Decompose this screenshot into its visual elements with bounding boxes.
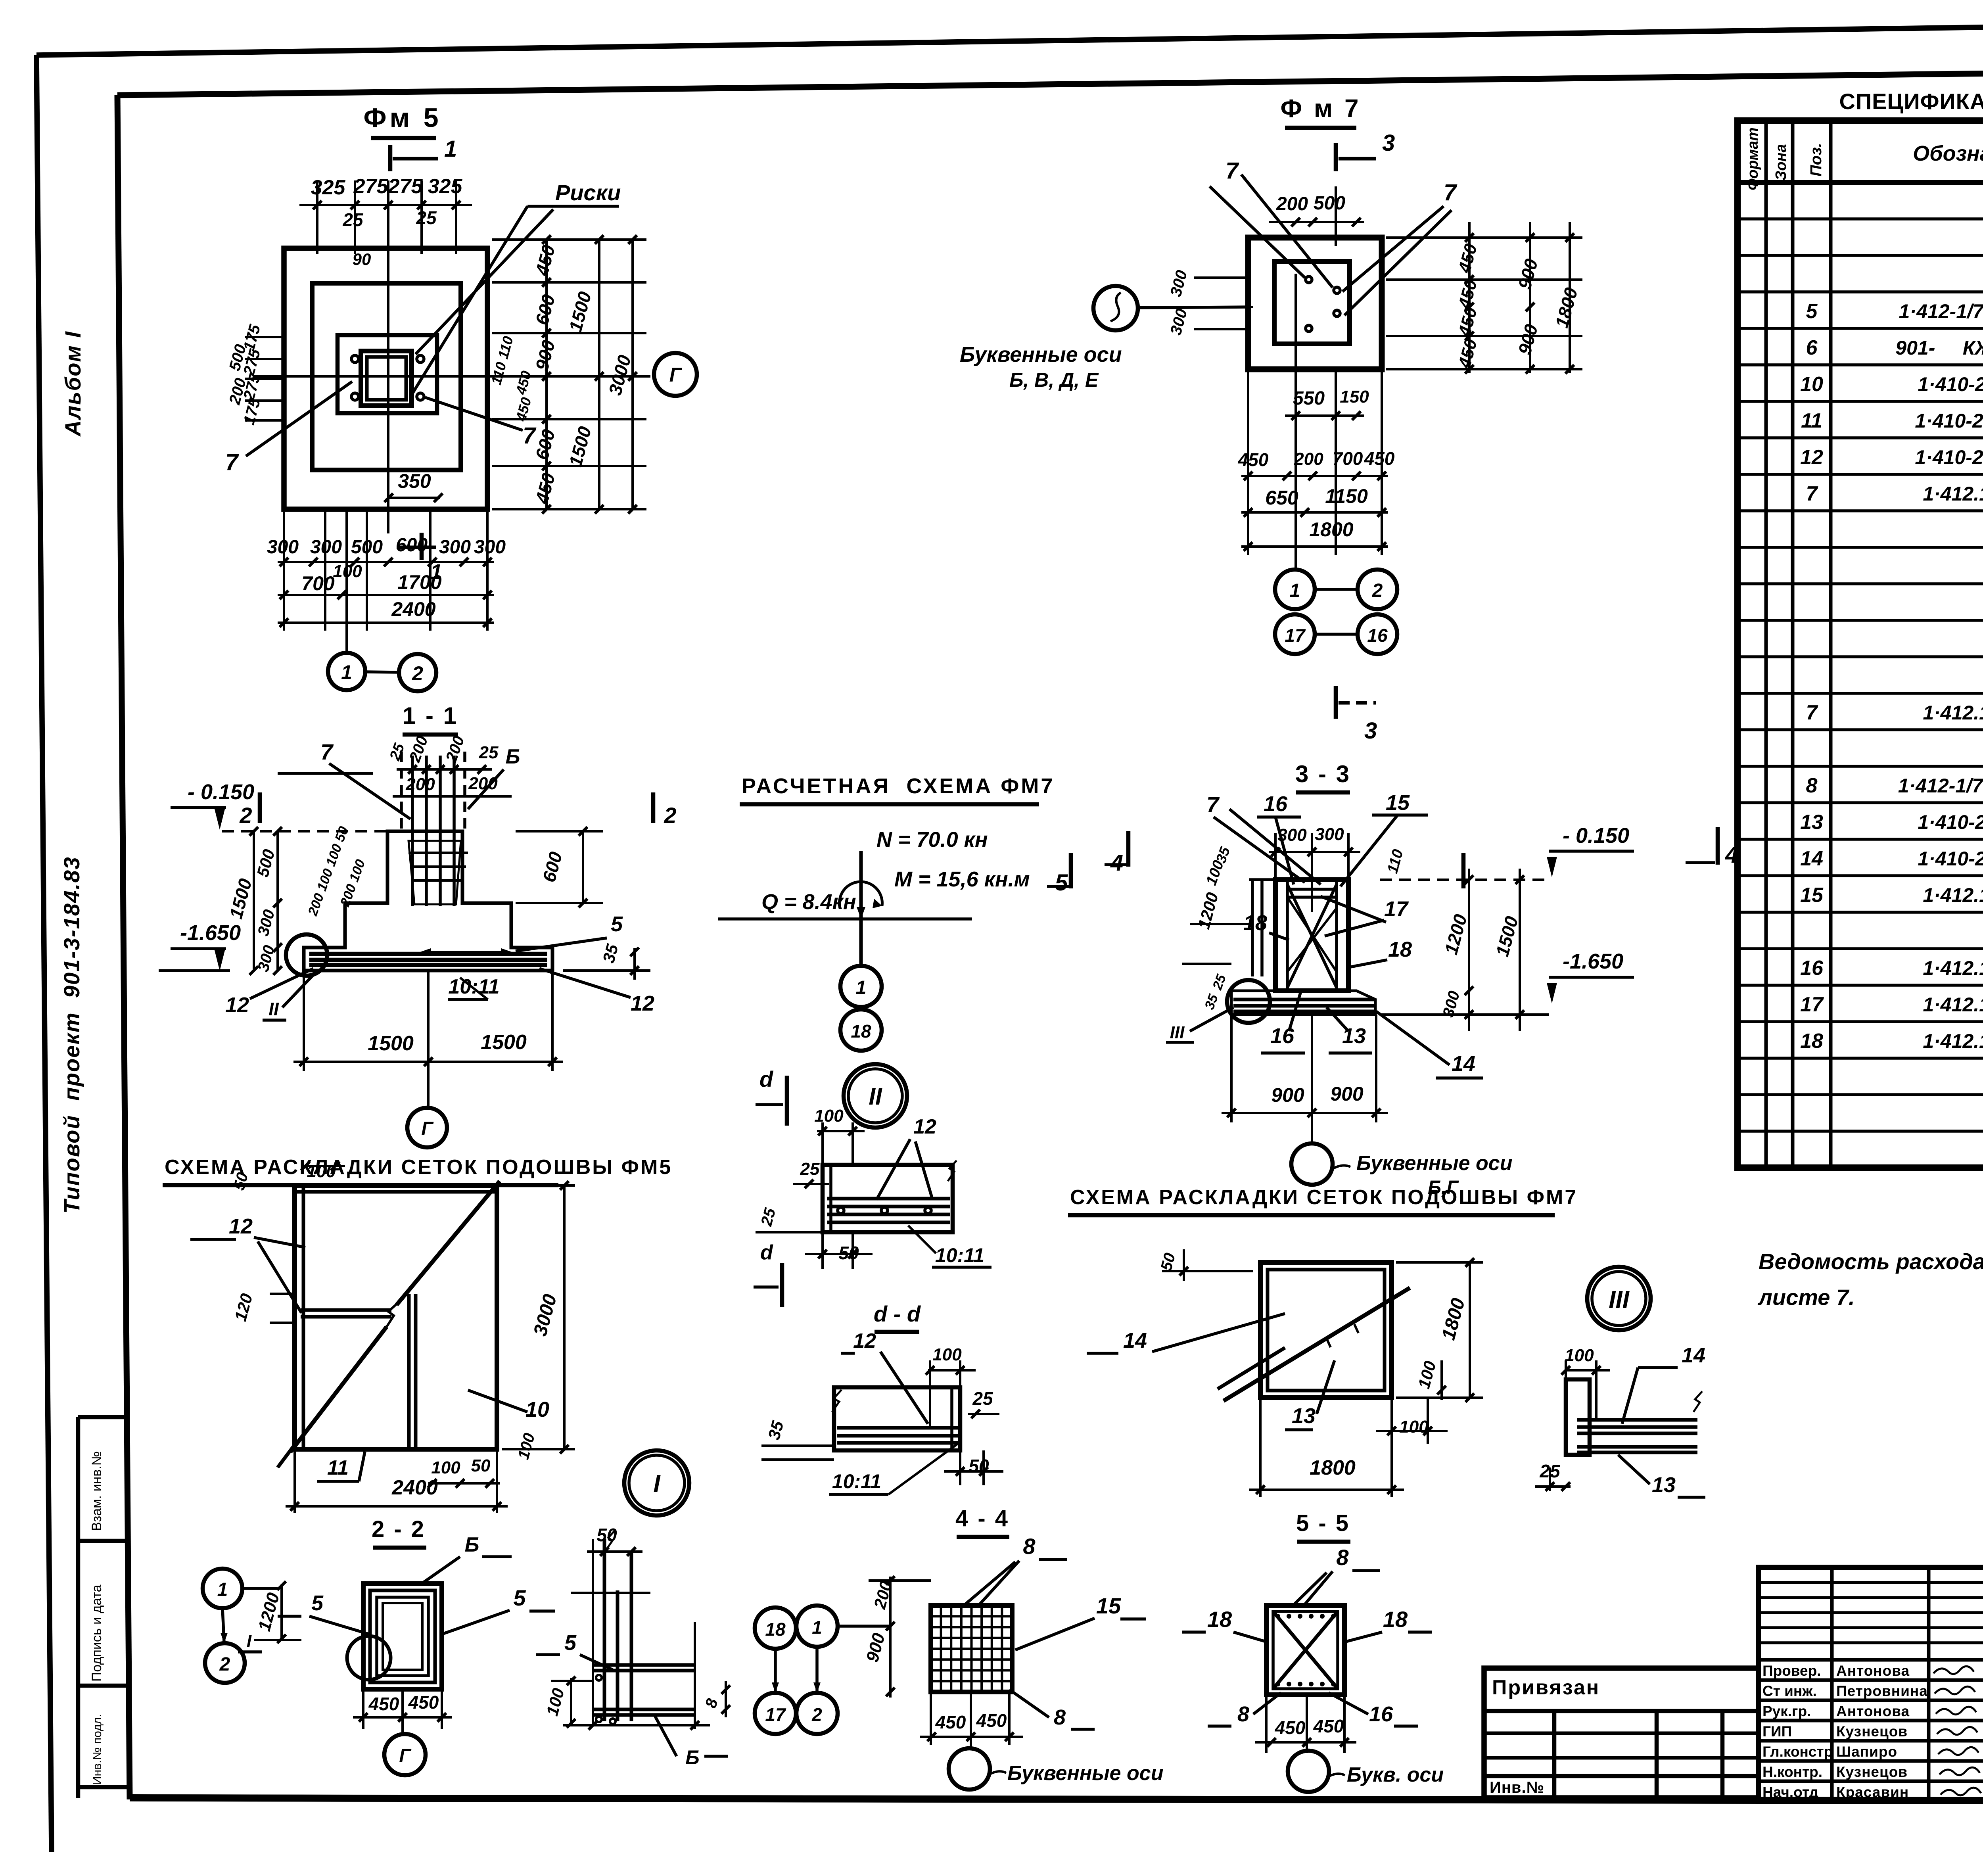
svg-text:2: 2	[1372, 580, 1383, 601]
svg-text:450: 450	[1238, 449, 1269, 470]
svg-text:Буквенные оси: Буквенные оси	[960, 343, 1122, 366]
svg-text:14: 14	[1800, 847, 1823, 870]
svg-text:Кузнецов: Кузнецов	[1836, 1723, 1908, 1740]
svg-text:M = 15,6 кн.м: M = 15,6 кн.м	[894, 867, 1030, 891]
svg-text:Подпись и дата: Подпись и дата	[89, 1584, 104, 1682]
svg-text:5 - 5: 5 - 5	[1296, 1510, 1350, 1536]
svg-text:СПЕЦИФИКАЦИЯ МОНОЛИТНЫХ ФУНДАМ: СПЕЦИФИКАЦИЯ МОНОЛИТНЫХ ФУНДАМЕНТОВ	[1839, 89, 1983, 114]
svg-text:50: 50	[471, 1456, 491, 1475]
svg-text:d: d	[759, 1067, 774, 1091]
svg-text:16: 16	[1367, 625, 1388, 646]
svg-text:Б: Б	[685, 1746, 699, 1769]
svg-text:3: 3	[1382, 130, 1395, 156]
svg-text:Антонова: Антонова	[1836, 1703, 1910, 1719]
svg-text:14: 14	[1682, 1343, 1705, 1367]
svg-text:Букв. оси: Букв. оси	[1347, 1763, 1444, 1786]
svg-text:2: 2	[219, 1654, 230, 1675]
svg-text:10:11: 10:11	[935, 1244, 984, 1266]
svg-text:1·412.1-4.080: 1·412.1-4.080	[1923, 994, 1983, 1016]
svg-text:2: 2	[412, 662, 423, 685]
svg-text:300: 300	[310, 537, 342, 558]
svg-text:2: 2	[664, 803, 676, 828]
svg-text:III: III	[1609, 1286, 1630, 1314]
svg-text:III: III	[1170, 1023, 1185, 1042]
svg-text:Гл.констр: Гл.констр	[1762, 1744, 1833, 1760]
svg-text:350: 350	[398, 470, 431, 492]
svg-text:700: 700	[1333, 448, 1363, 469]
svg-text:325: 325	[311, 176, 346, 199]
svg-text:12: 12	[631, 992, 654, 1015]
svg-text:d: d	[760, 1241, 773, 1264]
svg-text:Рук.гр.: Рук.гр.	[1762, 1703, 1811, 1719]
svg-text:500: 500	[351, 537, 383, 558]
svg-text:1: 1	[444, 136, 457, 162]
svg-text:1·410-2. Вып.1: 1·410-2. Вып.1	[1915, 410, 1983, 432]
svg-text:Инв.№: Инв.№	[1490, 1779, 1544, 1796]
svg-text:7: 7	[1206, 792, 1220, 817]
svg-text:5: 5	[311, 1591, 324, 1615]
svg-text:25: 25	[972, 1388, 993, 1409]
svg-text:СХЕМА РАСКЛАДКИ СЕТОК ПОДОШВЫ: СХЕМА РАСКЛАДКИ СЕТОК ПОДОШВЫ ФМ7	[1070, 1186, 1578, 1209]
svg-text:Г: Г	[399, 1746, 412, 1767]
svg-text:200: 200	[405, 775, 435, 794]
svg-text:275: 275	[353, 175, 389, 198]
svg-text:550: 550	[1293, 388, 1325, 409]
svg-text:4 - 4: 4 - 4	[955, 1506, 1009, 1531]
svg-text:Взам. инв.№: Взам. инв.№	[89, 1451, 104, 1531]
svg-text:1: 1	[1290, 580, 1300, 601]
svg-text:18: 18	[1800, 1030, 1823, 1053]
svg-text:450: 450	[1364, 448, 1395, 469]
svg-text:16: 16	[1264, 792, 1288, 816]
svg-text:100: 100	[431, 1458, 460, 1477]
svg-text:Б: Б	[506, 745, 520, 768]
svg-text:18: 18	[1383, 1607, 1408, 1632]
svg-text:25: 25	[479, 743, 499, 762]
svg-text:N = 70.0 кн: N = 70.0 кн	[876, 828, 988, 852]
svg-text:4: 4	[1110, 850, 1123, 876]
svg-text:3: 3	[1364, 718, 1377, 744]
svg-text:1·412.1-4.060: 1·412.1-4.060	[1923, 483, 1983, 505]
svg-text:Риски: Риски	[555, 180, 621, 205]
svg-text:Шапиро: Шапиро	[1836, 1744, 1897, 1760]
svg-text:450: 450	[976, 1710, 1007, 1731]
svg-text:7: 7	[1444, 180, 1458, 205]
svg-text:200: 200	[1294, 449, 1323, 469]
svg-text:12: 12	[225, 993, 249, 1017]
svg-text:- 0.150: - 0.150	[188, 780, 254, 804]
svg-text:Буквенные оси: Буквенные оси	[1007, 1762, 1163, 1785]
svg-text:16: 16	[1800, 957, 1824, 980]
svg-text:- 0.150: - 0.150	[1563, 824, 1629, 848]
svg-text:5: 5	[1055, 870, 1068, 896]
svg-text:II: II	[869, 1083, 882, 1110]
svg-text:17: 17	[765, 1704, 786, 1725]
svg-text:2400: 2400	[391, 598, 435, 620]
svg-text:Ф м 7: Ф м 7	[1280, 94, 1361, 123]
svg-text:2: 2	[239, 803, 252, 828]
svg-text:4: 4	[1725, 842, 1738, 868]
svg-text:7: 7	[320, 739, 334, 764]
svg-text:1·412.1-4.080: 1·412.1-4.080	[1923, 1030, 1983, 1052]
svg-text:300: 300	[1277, 825, 1307, 845]
svg-text:18: 18	[1388, 938, 1412, 961]
svg-text:Б, В, Д, Е: Б, В, Д, Е	[1009, 369, 1099, 391]
svg-text:Провер.: Провер.	[1762, 1663, 1821, 1679]
svg-text:1800: 1800	[1309, 518, 1353, 541]
svg-text:450: 450	[935, 1712, 966, 1732]
svg-text:Зона: Зона	[1773, 144, 1789, 180]
svg-text:8: 8	[1054, 1705, 1066, 1729]
svg-text:450: 450	[1313, 1716, 1344, 1736]
svg-text:Антонова: Антонова	[1836, 1663, 1910, 1679]
svg-text:Привязан: Привязан	[1492, 1676, 1600, 1699]
svg-text:450: 450	[408, 1692, 439, 1713]
svg-text:12: 12	[1800, 446, 1823, 469]
svg-text:1: 1	[341, 661, 352, 683]
svg-text:-1.650: -1.650	[1563, 950, 1623, 973]
svg-text:2400: 2400	[391, 1476, 438, 1499]
svg-text:450: 450	[1275, 1717, 1306, 1738]
svg-text:Инв.№ подл.: Инв.№ подл.	[91, 1714, 104, 1785]
svg-text:2: 2	[811, 1704, 822, 1725]
svg-text:450: 450	[368, 1694, 399, 1714]
svg-text:13: 13	[1652, 1473, 1676, 1497]
svg-text:7: 7	[1225, 158, 1239, 184]
svg-text:8: 8	[1023, 1534, 1036, 1559]
svg-text:РАСЧЕТНАЯ СХЕМА ФМ7: РАСЧЕТНАЯ СХЕМА ФМ7	[742, 774, 1055, 798]
svg-text:1·412.1-4.080: 1·412.1-4.080	[1923, 957, 1983, 979]
svg-text:50: 50	[596, 1525, 617, 1545]
svg-text:25: 25	[416, 207, 437, 228]
svg-text:5: 5	[1806, 300, 1818, 323]
svg-text:900: 900	[1330, 1083, 1364, 1105]
svg-text:Красавин: Красавин	[1836, 1784, 1909, 1800]
svg-text:10:11: 10:11	[448, 975, 499, 998]
svg-text:100: 100	[333, 562, 362, 581]
svg-text:14: 14	[1123, 1329, 1147, 1352]
svg-text:1800: 1800	[1310, 1456, 1356, 1479]
svg-text:7: 7	[225, 449, 239, 475]
svg-text:1·412-1/77·В,3-100: 1·412-1/77·В,3-100	[1898, 775, 1983, 797]
svg-text:d - d: d - d	[874, 1301, 921, 1326]
svg-text:1·410-2. Вып.1: 1·410-2. Вып.1	[1915, 446, 1983, 468]
svg-text:200: 200	[468, 774, 498, 793]
svg-text:1: 1	[217, 1579, 228, 1600]
svg-text:Нач.отд: Нач.отд	[1762, 1784, 1818, 1800]
svg-text:1150: 1150	[1325, 485, 1368, 507]
svg-text:901- КЖИ.101.01: 901- КЖИ.101.01	[1895, 337, 1983, 359]
svg-text:11: 11	[327, 1456, 349, 1479]
svg-text:Фм 5: Фм 5	[363, 103, 441, 133]
svg-text:300: 300	[267, 537, 299, 558]
svg-text:Обозначение: Обозначение	[1913, 142, 1983, 165]
svg-text:Н.контр.: Н.контр.	[1762, 1764, 1822, 1780]
svg-text:275: 275	[388, 175, 423, 198]
svg-text:18: 18	[1243, 911, 1267, 935]
svg-text:90: 90	[353, 250, 371, 269]
svg-text:15: 15	[1800, 884, 1824, 907]
svg-text:1·412-1/77-В,3-110: 1·412-1/77-В,3-110	[1899, 300, 1983, 322]
svg-text:Петровнина: Петровнина	[1836, 1683, 1928, 1699]
svg-text:100: 100	[307, 1162, 336, 1181]
svg-text:300: 300	[1315, 825, 1344, 844]
svg-text:5: 5	[564, 1631, 577, 1655]
svg-text:Г: Г	[421, 1118, 434, 1139]
svg-text:листе 7.: листе 7.	[1757, 1285, 1855, 1310]
svg-text:300: 300	[439, 537, 471, 558]
svg-text:1·412.1-4.050: 1·412.1-4.050	[1923, 884, 1983, 906]
svg-text:16: 16	[1369, 1702, 1393, 1726]
svg-text:100: 100	[932, 1345, 962, 1364]
svg-text:1: 1	[856, 977, 867, 998]
svg-text:1 - 1: 1 - 1	[403, 702, 458, 729]
svg-text:I: I	[653, 1470, 661, 1498]
svg-text:-1.650: -1.650	[180, 921, 241, 945]
svg-text:8: 8	[1237, 1702, 1249, 1726]
svg-text:13: 13	[1800, 811, 1823, 834]
svg-text:500: 500	[1314, 193, 1345, 214]
svg-text:18: 18	[1207, 1607, 1232, 1632]
svg-text:Б: Б	[465, 1533, 479, 1556]
svg-text:II: II	[268, 999, 279, 1019]
svg-text:7: 7	[1806, 701, 1818, 724]
svg-text:300: 300	[474, 537, 506, 558]
svg-text:50: 50	[968, 1456, 989, 1476]
svg-text:12: 12	[913, 1115, 936, 1138]
svg-text:100: 100	[814, 1106, 844, 1126]
svg-text:25: 25	[800, 1159, 820, 1179]
svg-text:3 - 3: 3 - 3	[1295, 761, 1351, 787]
svg-text:200: 200	[1276, 194, 1308, 215]
svg-text:325: 325	[428, 175, 463, 198]
svg-text:Поз.: Поз.	[1807, 143, 1825, 176]
svg-text:1: 1	[812, 1617, 822, 1638]
svg-text:1·410-2 Вып.1: 1·410-2 Вып.1	[1918, 848, 1983, 870]
svg-text:Буквенные оси: Буквенные оси	[1356, 1152, 1512, 1175]
svg-text:8: 8	[1806, 774, 1818, 797]
svg-text:14: 14	[1452, 1052, 1475, 1076]
svg-text:1500: 1500	[481, 1031, 527, 1054]
svg-text:10:11: 10:11	[832, 1470, 881, 1492]
svg-text:17: 17	[1285, 625, 1306, 646]
svg-text:10: 10	[525, 1398, 549, 1421]
svg-text:Кузнецов: Кузнецов	[1836, 1764, 1908, 1780]
svg-text:10: 10	[1800, 373, 1823, 396]
svg-text:7: 7	[1806, 482, 1818, 505]
svg-text:17: 17	[1384, 897, 1409, 921]
svg-text:I: I	[247, 1631, 252, 1651]
svg-text:15: 15	[1386, 791, 1410, 815]
svg-text:1·410-2 Вып.1: 1·410-2 Вып.1	[1918, 373, 1983, 395]
svg-text:18: 18	[765, 1619, 786, 1640]
svg-text:25: 25	[342, 209, 364, 230]
svg-text:17: 17	[1800, 993, 1824, 1016]
svg-text:6: 6	[1806, 336, 1818, 359]
svg-text:1·410-2 Вып.1: 1·410-2 Вып.1	[1918, 811, 1983, 833]
svg-text:15: 15	[1096, 1593, 1121, 1618]
svg-text:Альбом I: Альбом I	[60, 331, 85, 437]
svg-text:Ведомость расхода стали на эле: Ведомость расхода стали на элемент смотр…	[1759, 1249, 1983, 1274]
svg-text:150: 150	[1340, 387, 1369, 407]
svg-text:Г: Г	[669, 364, 683, 386]
svg-text:13: 13	[1292, 1404, 1316, 1428]
svg-text:5: 5	[513, 1585, 526, 1610]
svg-text:650: 650	[1265, 487, 1298, 509]
svg-text:8: 8	[1336, 1545, 1349, 1570]
svg-text:100: 100	[1565, 1346, 1594, 1365]
svg-text:12: 12	[229, 1214, 253, 1238]
svg-text:ГИП: ГИП	[1762, 1723, 1792, 1740]
svg-text:900: 900	[1271, 1084, 1304, 1106]
svg-text:12: 12	[853, 1329, 876, 1352]
svg-text:700: 700	[301, 572, 335, 595]
svg-text:Типовой проект 901-3-184.83: Типовой проект 901-3-184.83	[59, 856, 84, 1214]
svg-text:5: 5	[611, 912, 623, 936]
svg-text:Ст инж.: Ст инж.	[1762, 1683, 1817, 1699]
svg-text:2 - 2: 2 - 2	[372, 1516, 426, 1542]
svg-text:Формат: Формат	[1745, 127, 1761, 190]
svg-text:1: 1	[430, 560, 442, 584]
svg-text:1·412.1-4.060: 1·412.1-4.060	[1923, 702, 1983, 724]
svg-text:18: 18	[851, 1021, 871, 1042]
svg-text:11: 11	[1801, 409, 1822, 432]
svg-text:1500: 1500	[368, 1032, 414, 1055]
